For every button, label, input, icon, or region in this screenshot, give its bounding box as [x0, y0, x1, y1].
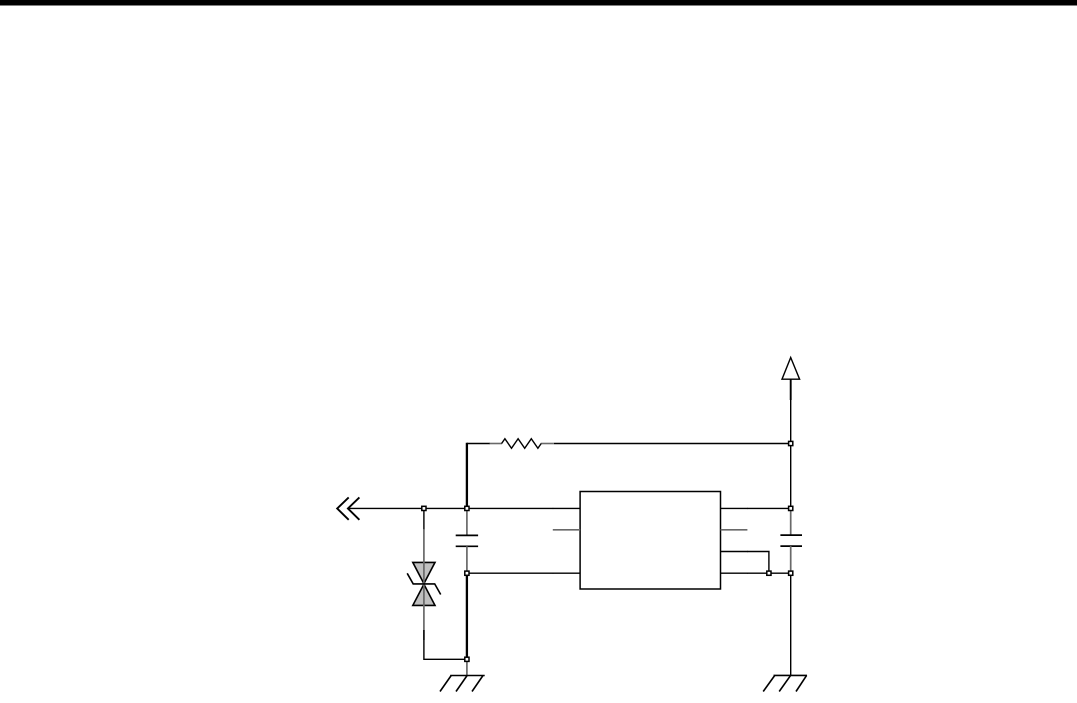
node at cap C1 bottom [465, 571, 469, 575]
wire resistor output to VCC rail [554, 443, 791, 445]
capacitor C2 [780, 508, 802, 573]
node at IC pin 3 junction [767, 571, 771, 575]
wire IC pin to VCC node right [747, 507, 791, 509]
wire cap bottom node down to ground node [466, 573, 468, 660]
wire IC pin 3 down to node [747, 552, 769, 574]
node at cap C2 top [789, 506, 793, 510]
wire VCC lead to node [790, 399, 792, 444]
node at chevron wire junction [422, 506, 426, 510]
wire VCC rail upper [790, 444, 792, 509]
connector chevron arrow [337, 497, 359, 519]
power symbol VCC [782, 358, 800, 401]
top border bar [0, 0, 1077, 6]
wire resistor left lead to corner [467, 443, 490, 445]
wire IC pin 4 to cap node [747, 572, 791, 574]
TVS diode D1 [407, 529, 441, 640]
wire cap node to IC pin 1 [467, 507, 553, 509]
ground right [763, 675, 807, 691]
wire cap bottom node to IC pin [467, 572, 553, 574]
wire TVS bottom to ground node [424, 630, 467, 659]
wire corner down to junction [466, 443, 468, 509]
wire right rail to ground [790, 573, 792, 675]
IC U1 [553, 492, 748, 590]
capacitor C1 [456, 508, 478, 573]
wire TVS node down [423, 508, 425, 530]
node at resistor VCC rail [789, 441, 793, 445]
wire TVS node to cap node [424, 507, 467, 509]
node at cap C1 top [465, 506, 469, 510]
resistor R1 [489, 439, 554, 449]
node at cap C2 bottom [789, 571, 793, 575]
ground left [440, 659, 485, 691]
wire chevron to TVS node [348, 507, 424, 509]
node at ground left [465, 657, 469, 661]
